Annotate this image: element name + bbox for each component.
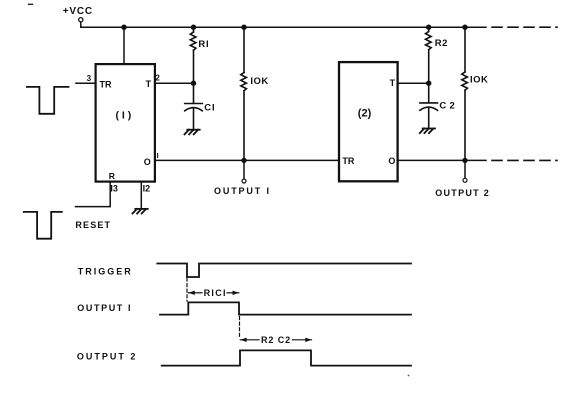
svg-text:( I ): ( I ) <box>116 110 132 122</box>
svg-text:RI: RI <box>198 39 209 50</box>
node output2 <box>462 158 467 163</box>
svg-text:OUTPUT 2: OUTPUT 2 <box>77 351 138 361</box>
svg-text:I: I <box>157 151 159 160</box>
trigger input pulse <box>27 87 69 114</box>
node rail-10K2 <box>462 25 467 30</box>
resistor R2 <box>426 27 432 83</box>
svg-text:OUTPUT 2: OUTPUT 2 <box>435 188 490 198</box>
svg-text:RICI: RICI <box>204 288 227 298</box>
node T1-R1-C1 <box>191 81 196 86</box>
wire pin13 to reset <box>76 182 111 207</box>
capacitor C1 <box>185 83 203 129</box>
stray speck <box>408 375 410 377</box>
dimension R2C2 <box>240 338 312 342</box>
svg-text:R: R <box>109 171 115 181</box>
svg-text:R2: R2 <box>435 38 448 49</box>
waveform output2 <box>162 350 411 365</box>
svg-text:O: O <box>388 156 395 166</box>
svg-text:R2 C2: R2 C2 <box>261 335 291 345</box>
resistor 10K (2) <box>462 27 468 160</box>
svg-text:T: T <box>390 78 396 88</box>
wire top rail dashed extension <box>492 26 557 28</box>
wire trigger input to TR <box>76 82 96 84</box>
svg-text:I2: I2 <box>143 184 151 194</box>
ground C2 <box>420 129 435 134</box>
svg-text:TR: TR <box>342 156 354 166</box>
node rail-R1 <box>191 25 196 30</box>
monostable U2 body <box>339 62 398 181</box>
wire rail to block1 top <box>123 27 125 64</box>
dashed drop line output1-output2 <box>239 317 241 339</box>
resistor 10K (1) <box>241 27 247 160</box>
wire T to node <box>155 82 194 84</box>
capacitor C2 <box>420 83 438 128</box>
node output1 <box>241 158 246 163</box>
svg-text:C 2: C 2 <box>439 101 455 112</box>
waveform output1 <box>160 302 411 314</box>
VCC terminal <box>79 18 83 22</box>
wire output1 rail <box>155 159 339 161</box>
svg-text:OUTPUT I: OUTPUT I <box>77 303 132 313</box>
svg-text:CI: CI <box>204 102 215 113</box>
ground C1 <box>185 130 200 135</box>
wire top rail <box>81 26 486 28</box>
monostable U1 body <box>96 64 155 182</box>
stray mark top-left <box>29 3 33 5</box>
node T2-R2-C2 <box>426 81 431 86</box>
svg-text:(2): (2) <box>358 108 372 120</box>
terminal OUTPUT 1 <box>243 160 245 178</box>
svg-text:I3: I3 <box>110 184 118 194</box>
wire T2 to node <box>398 82 429 84</box>
ground pin12 <box>133 209 148 214</box>
svg-text:TRIGGER: TRIGGER <box>78 267 133 277</box>
wire VCC to rail <box>80 22 82 27</box>
wire output2 dashed extension <box>492 159 557 161</box>
svg-text:T: T <box>146 79 152 89</box>
svg-text:OUTPUT I: OUTPUT I <box>214 186 271 196</box>
reset input pulse <box>24 212 62 239</box>
svg-text:RESET: RESET <box>75 220 111 230</box>
wire output2 rail <box>398 159 486 161</box>
terminal OUTPUT 2 <box>464 160 466 178</box>
dimension R1C1 <box>188 291 239 295</box>
svg-text:IOK: IOK <box>470 74 488 85</box>
node rail-10K1 <box>241 25 246 30</box>
svg-text:IOK: IOK <box>250 76 268 87</box>
svg-text:2: 2 <box>155 74 160 83</box>
svg-text:+VCC: +VCC <box>63 6 93 17</box>
wire pin12 to ground <box>140 182 142 209</box>
waveform trigger <box>157 264 411 278</box>
svg-text:3: 3 <box>87 74 92 83</box>
svg-text:TR: TR <box>100 79 112 89</box>
dashed drop line trigger-output1 <box>186 278 188 301</box>
resistor R1 <box>190 27 196 83</box>
node rail-R2 <box>426 25 431 30</box>
svg-text:O: O <box>144 157 151 167</box>
node rail-block1 <box>121 25 126 30</box>
